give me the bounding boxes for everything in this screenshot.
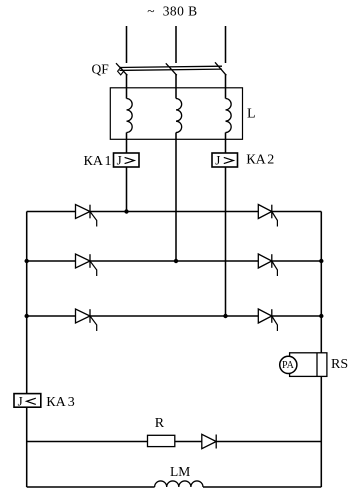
svg-text:PA: PA: [282, 360, 295, 371]
breaker QF square symbol: [118, 68, 124, 75]
wire phase A reactor to KA1: [126, 133, 128, 154]
wire right bus upper: [320, 212, 322, 353]
wire right bus lower: [320, 376, 322, 487]
thyristor VS3 row2 left: [76, 254, 97, 276]
wire R-diode row: [27, 441, 322, 443]
svg-text:КА3: КА3: [46, 395, 74, 410]
inductor coil phase B: [176, 99, 182, 133]
thyristor VS4 row2 right: [258, 254, 277, 276]
inductor LM: [155, 481, 203, 487]
wire phase B reactor to row2: [175, 133, 177, 262]
wire phase A QF to reactor: [126, 74, 128, 99]
node left bus row2: [25, 259, 29, 263]
wire bottom row left: [27, 486, 155, 488]
node right bus row3: [319, 314, 323, 318]
wire left bus: [26, 212, 28, 488]
node left bus row3: [25, 314, 29, 318]
wire phase C QF to reactor: [225, 74, 227, 99]
svg-text:~ 380 В: ~ 380 В: [147, 4, 197, 19]
thyristor VS6 row3 right: [258, 309, 277, 331]
svg-text:J: J: [117, 152, 122, 167]
svg-text:RS: RS: [331, 357, 348, 372]
node phase C row3: [223, 314, 227, 318]
node phase A row1: [124, 209, 128, 213]
breaker QF blade pole A: [116, 63, 127, 75]
diode VD: [202, 434, 216, 448]
wire bottom row right: [203, 486, 321, 488]
relay KA3 box: [14, 394, 41, 408]
breaker QF blade pole B: [166, 63, 177, 75]
wire row3: [27, 315, 322, 317]
shunt RS box with ammeter loop: [290, 353, 327, 377]
svg-text:J: J: [18, 393, 23, 408]
wire phase A KA1 to row1: [126, 167, 128, 212]
wire phase A top: [126, 26, 128, 63]
breaker QF blade pole C: [215, 62, 226, 75]
wire phase C reactor to KA2: [225, 133, 227, 154]
svg-text:QF: QF: [92, 62, 110, 77]
ammeter PA: [280, 356, 297, 373]
wire phase B QF to reactor: [175, 74, 177, 99]
svg-text:J: J: [215, 152, 220, 167]
svg-text:КА2: КА2: [246, 153, 274, 168]
node phase B row2: [174, 259, 178, 263]
wire phase C top: [225, 26, 227, 63]
svg-text:LM: LM: [170, 464, 190, 479]
relay KA2 box: [212, 153, 238, 167]
breaker QF linkage bar: [120, 66, 223, 70]
svg-text:L: L: [247, 107, 256, 122]
resistor R: [148, 435, 175, 446]
thyristor VS1 row1 left: [76, 205, 97, 227]
node right bus row2: [319, 259, 323, 263]
wire row2: [27, 260, 322, 262]
inductor coil phase A: [127, 99, 133, 133]
inductor coil phase C: [226, 99, 232, 133]
thyristor VS2 row1 right: [258, 205, 277, 227]
wire row1: [27, 211, 322, 213]
reactor box L: [110, 88, 242, 140]
svg-text:R: R: [155, 416, 165, 431]
thyristor VS5 row3 left: [76, 309, 97, 331]
wire phase B top: [175, 26, 177, 63]
wire phase C KA2 to row3: [225, 167, 227, 316]
svg-text:КА1: КА1: [84, 154, 112, 169]
relay KA1 box: [114, 153, 140, 167]
